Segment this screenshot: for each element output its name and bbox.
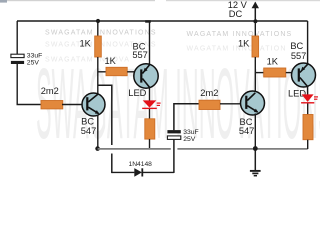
diode D1 1N4148 xyxy=(112,168,174,177)
capacitor C2 33uF top plate (solid) xyxy=(167,130,180,133)
svg-text:25V: 25V xyxy=(27,59,40,66)
svg-text:SWAGATAM INNOVA: SWAGATAM INNOVA xyxy=(45,57,130,64)
capacitor C2 33uF bottom plate (outlined) xyxy=(167,136,180,140)
svg-text:DC: DC xyxy=(229,9,243,19)
supply arrow up xyxy=(252,2,259,22)
svg-text:1K: 1K xyxy=(80,38,92,48)
wire left border down to capacitor C1 xyxy=(16,21,18,54)
crop artifact top-left blue blob xyxy=(0,0,7,3)
wire C1 bottom to corner xyxy=(17,64,41,105)
wire R5 to Q3 base xyxy=(220,103,241,105)
capacitor C1 33uF top plate xyxy=(11,54,24,57)
svg-text:547: 547 xyxy=(81,126,97,136)
wire Q2 collector to LED1 xyxy=(149,88,151,101)
wire Q3 emitter down to ground dot xyxy=(254,114,256,149)
resistor R8 right LED resistor xyxy=(303,115,313,140)
svg-text:25V: 25V xyxy=(183,136,196,143)
watermark big center xyxy=(36,49,320,161)
wire node B to R7 xyxy=(255,72,264,74)
resistor R6 1K vertical right xyxy=(252,36,259,57)
crop artifact top edge line left xyxy=(0,0,155,1)
svg-text:LED: LED xyxy=(128,88,146,98)
wire R6 bottom to Q3 collector xyxy=(254,57,256,92)
wire LED1 to R4 xyxy=(149,109,151,119)
svg-text:1N4148: 1N4148 xyxy=(128,161,152,168)
transistor Q4 BC557 right xyxy=(292,63,316,87)
svg-text:BC: BC xyxy=(290,41,303,51)
wire R7 to Q4 base xyxy=(286,72,292,74)
wire R1 to Q1 base xyxy=(62,104,83,106)
wire Q2 emitter from rail xyxy=(149,21,151,65)
junction dot bottom-right xyxy=(253,146,258,151)
transistor Q1 BC547 left xyxy=(82,93,105,116)
wire Q1 emitter down xyxy=(97,115,99,149)
crop artifact top edge line right xyxy=(166,0,320,1)
resistor R5 2m2 right xyxy=(199,100,220,109)
node A wire: rail dot down through R2 to Q1 collector xyxy=(97,21,99,36)
svg-text:SWAGATAM INNOVATIONS: SWAGATAM INNOVATIONS xyxy=(45,30,157,37)
LED2 right xyxy=(301,94,318,103)
wire node A branch to diode leg xyxy=(98,85,112,145)
transistor Q2 BC557 left xyxy=(134,64,158,88)
wire diode right leg up to capacitor C2 xyxy=(173,140,175,173)
wire bottom rail left segment xyxy=(98,148,171,150)
junction blob at Q2 emitter on rail xyxy=(145,20,151,23)
wire R4 to ground rail xyxy=(149,139,151,149)
wire diode leg below rail xyxy=(111,154,113,174)
svg-text:1K: 1K xyxy=(105,56,117,66)
svg-text:557: 557 xyxy=(291,51,307,61)
svg-text:547: 547 xyxy=(239,126,255,136)
wire bottom rail right segment xyxy=(177,148,307,150)
LED1 left xyxy=(142,100,160,109)
wire node B from rail down xyxy=(254,21,256,36)
wire C2 top to corner to R5 xyxy=(174,104,199,130)
capacitor C1 33uF bottom plate xyxy=(11,61,24,64)
junction dot bottom-left xyxy=(95,146,100,151)
svg-text:557: 557 xyxy=(132,50,148,60)
resistor R1 2m2 left xyxy=(41,101,63,109)
svg-text:2m2: 2m2 xyxy=(41,86,59,96)
svg-text:WAGATAM INNOVATION: WAGATAM INNOVATION xyxy=(187,46,287,53)
wire R8 to ground rail xyxy=(307,140,309,149)
wire Q4 emitter from rail (right border) xyxy=(307,21,309,64)
transistor Q3 BC547 right xyxy=(241,91,265,115)
wire R2 bottom to node A xyxy=(97,57,99,94)
junction dot top-left xyxy=(96,19,100,23)
svg-text:2m2: 2m2 xyxy=(200,88,218,98)
resistor R7 1K horizontal right xyxy=(264,68,286,77)
resistor R4 left LED resistor xyxy=(145,119,155,139)
wire LED2 to R8 xyxy=(307,104,309,115)
ground symbol xyxy=(250,149,261,176)
svg-text:WAGATAM INNOVATIONS: WAGATAM INNOVATIONS xyxy=(187,31,293,38)
resistor R3 1K horizontal left xyxy=(106,67,127,75)
wire top +12V rail xyxy=(17,20,308,22)
wire Q4 collector to LED2 xyxy=(307,86,309,95)
svg-text:1K: 1K xyxy=(267,57,279,67)
wire R3 to Q2 base xyxy=(127,71,134,73)
wire node A to R3 xyxy=(98,71,106,73)
junction dot top-right xyxy=(253,19,257,23)
svg-text:1K: 1K xyxy=(238,39,250,49)
resistor R2 1K vertical left xyxy=(95,36,102,57)
